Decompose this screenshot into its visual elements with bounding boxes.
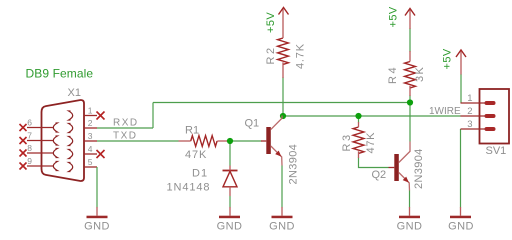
svg-text:Q1: Q1 [245, 118, 260, 130]
+5V supply arrow for SV1 pin 1 [456, 50, 466, 57]
svg-text:3K: 3K [414, 66, 426, 82]
svg-text:+5V: +5V [265, 12, 277, 33]
svg-text:R2: R2 [265, 45, 277, 64]
X1 pin 4 stub [84, 153, 97, 155]
svg-text:8: 8 [27, 143, 32, 153]
+5V supply lead for SV1 pin 1 [460, 52, 462, 75]
svg-text:R3: R3 [341, 132, 353, 151]
wire RXD long horizontal to R4 junction [153, 102, 410, 104]
ground symbol under X1 pin 5 [84, 207, 110, 233]
junction dot 1WIRE/R2/Q1 collector [280, 113, 286, 119]
svg-text:GND: GND [84, 221, 110, 233]
X1 pin 1 stub [84, 115, 97, 117]
svg-text:R1: R1 [185, 125, 199, 137]
wire R3 bottom to Q2 base [359, 158, 389, 168]
X1 pin 7 socket arc [53, 136, 57, 145]
diode D1 triangle [223, 171, 237, 187]
resistor R1 zigzag [191, 136, 217, 147]
SV1 pin 3 stub [461, 128, 486, 130]
no-connect X on pin 9 [20, 163, 27, 170]
svg-text:GND: GND [217, 221, 243, 233]
transistor Q1 base bar [266, 127, 271, 154]
transistor Q2 base lead [389, 167, 395, 169]
resistor R2 bottom lead [282, 62, 284, 78]
svg-text:D1: D1 [192, 168, 208, 180]
svg-text:+5V: +5V [441, 48, 453, 69]
svg-text:GND: GND [397, 221, 423, 233]
svg-text:1N4148: 1N4148 [167, 182, 211, 194]
resistor R4 zigzag [405, 62, 416, 88]
svg-text:5: 5 [88, 157, 93, 167]
wire Q1 emitter to GND [281, 166, 283, 208]
svg-text:+5V: +5V [387, 6, 399, 27]
SV1 pin 2 stub [461, 115, 486, 117]
ground symbol under Q2 emitter [397, 207, 423, 233]
resistor R1 right lead [217, 140, 227, 142]
svg-text:1WIRE: 1WIRE [429, 106, 461, 117]
diode D1 bottom lead [229, 187, 231, 196]
SV1 pin 3 lozenge [485, 127, 496, 131]
resistor R3 top lead [358, 122, 360, 127]
resistor R4 bottom lead [409, 86, 411, 96]
X1 pin 6 stub [27, 127, 53, 129]
svg-text:GND: GND [448, 221, 474, 233]
no-connect X on pin 7 [20, 137, 27, 144]
+5V supply arrow above R4 [405, 9, 415, 16]
X1 pin 8 stub [27, 152, 53, 154]
X1 pin 5 socket arc [69, 163, 73, 172]
svg-text:TXD: TXD [113, 131, 138, 142]
transistor Q1 emitter [271, 146, 282, 166]
X1 pin 7 stub [27, 140, 53, 142]
SV1 pin 2 lozenge [485, 114, 496, 118]
svg-text:3: 3 [467, 119, 472, 130]
svg-text:GND: GND [269, 221, 295, 233]
svg-text:1: 1 [467, 93, 472, 104]
junction dot RXD/R4/Q2 collector [407, 99, 413, 105]
resistor R1 left lead [179, 140, 191, 142]
transistor Q2 emitter [399, 173, 410, 191]
wire RXD drop to Q2 collector [409, 103, 411, 142]
svg-text:X1: X1 [68, 87, 81, 99]
wire R4 bottom to junction [409, 95, 411, 103]
X1 pin 3 socket arc [69, 137, 73, 146]
svg-text:9: 9 [27, 156, 32, 166]
svg-text:47K: 47K [185, 149, 207, 161]
ground symbol under SV1 pin 3 [448, 207, 474, 233]
transistor Q1 collector [271, 116, 282, 130]
wire R2 bottom to 1WIRE junction [282, 77, 284, 116]
wire TXD from pin 3 to R1 [97, 140, 179, 142]
svg-text:47K: 47K [365, 132, 377, 154]
+5V supply arrow above R2 [279, 8, 289, 15]
resistor R3 zigzag [353, 127, 364, 153]
junction dot 1WIRE/R3 [355, 113, 361, 119]
resistor R4 mid lead [409, 51, 411, 62]
svg-text:DB9 Female: DB9 Female [26, 67, 94, 81]
wire RXD horizontal from pin 2 [97, 127, 153, 129]
connector X1 (DB9 female) body [42, 100, 85, 181]
connector SV1 body [480, 89, 510, 144]
X1 pin 2 socket arc [69, 124, 73, 133]
svg-text:7: 7 [27, 131, 32, 141]
svg-text:2: 2 [467, 106, 472, 117]
ground symbol under Q1 emitter [269, 207, 295, 233]
wire Q2 emitter to GND [409, 191, 411, 208]
X1 pin 2 stub [84, 127, 97, 129]
X1 pin 9 socket arc [53, 162, 57, 171]
X1 pin 4 socket arc [69, 150, 73, 159]
transistor Q2 collector [399, 142, 410, 163]
wire R4 upper green segment [409, 28, 411, 52]
SV1 pin 1 lozenge [485, 101, 496, 105]
X1 pin 9 stub [27, 165, 53, 167]
no-connect X on pin 4 [97, 150, 105, 158]
svg-text:4.7K: 4.7K [295, 43, 307, 69]
transistor Q1 emitter arrowhead [275, 151, 281, 157]
X1 pin 1 socket arc [69, 111, 73, 120]
wire R3 top to 1WIRE junction [358, 116, 360, 123]
resistor R2 top lead [282, 9, 284, 38]
no-connect X on pin 6 [20, 124, 27, 131]
svg-text:R4: R4 [387, 65, 399, 84]
X1 pin 8 socket arc [53, 149, 57, 158]
junction dot TXD/R1/D1/Q1 [227, 138, 233, 144]
svg-text:2: 2 [88, 118, 93, 128]
wire +5V to SV1 pin 1 [460, 74, 462, 103]
X1 pin 6 socket arc [53, 123, 57, 132]
svg-text:RXD: RXD [113, 118, 139, 129]
wire R1 right to junction and Q1 base [227, 140, 262, 142]
wire X1 pin 5 to GND [96, 167, 98, 208]
ground symbol under D1 [217, 207, 243, 233]
svg-text:2N3904: 2N3904 [413, 148, 425, 189]
resistor R3 bottom lead [358, 151, 360, 158]
diode D1 top lead [229, 166, 231, 171]
X1 pin 3 stub [84, 140, 97, 142]
svg-text:2N3904: 2N3904 [288, 144, 300, 185]
svg-text:4: 4 [88, 144, 93, 154]
no-connect X on pin 1 [97, 112, 105, 120]
svg-text:6: 6 [27, 118, 32, 128]
transistor Q2 emitter arrowhead [403, 177, 409, 183]
SV1 pin 1 stub [461, 102, 486, 104]
wire RXD riser [152, 103, 154, 129]
svg-text:1: 1 [88, 106, 93, 116]
wire junction down to D1 [229, 141, 231, 166]
transistor Q2 base bar [394, 154, 399, 181]
resistor R2 zigzag [278, 38, 289, 64]
svg-text:3: 3 [88, 131, 93, 141]
wire SV1 pin 3 to GND [460, 129, 462, 208]
svg-text:SV1: SV1 [486, 145, 507, 157]
resistor R4 top lead [409, 10, 411, 29]
transistor Q1 base lead [261, 140, 266, 142]
svg-text:Q2: Q2 [372, 169, 387, 181]
no-connect X on pin 8 [20, 150, 27, 157]
X1 pin 5 stub [84, 166, 97, 168]
diode D1 cathode bar [223, 170, 238, 172]
wire 1WIRE net [283, 115, 461, 117]
